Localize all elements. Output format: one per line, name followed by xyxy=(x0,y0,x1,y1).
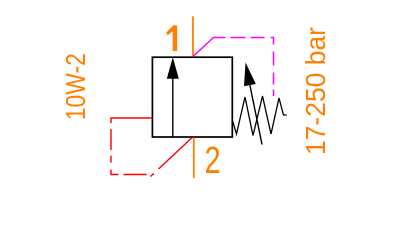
svg-text:2: 2 xyxy=(205,140,221,182)
svg-text:10W-2: 10W-2 xyxy=(60,53,91,120)
svg-text:17-250 bar: 17-250 bar xyxy=(300,27,331,155)
